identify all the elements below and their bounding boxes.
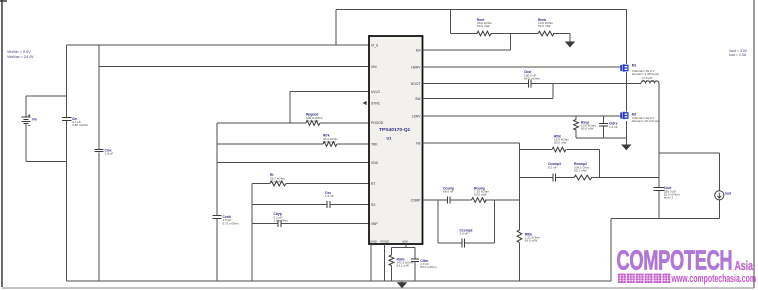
svg-text:VinMin = 9.0V: VinMin = 9.0V [7,50,31,54]
inductor L1 [641,76,659,84]
svg-text:1.0 nF: 1.0 nF [609,125,618,129]
capacitor Cinx [95,45,114,281]
svg-text:8.2 nF: 8.2 nF [548,165,557,169]
svg-text:50.0 mOhm: 50.0 mOhm [420,265,437,269]
svg-text:Asia: Asia [735,259,754,273]
resistor Rcomp2 [574,162,659,180]
svg-text:EN: EN [416,48,421,52]
svg-text:63.0 mW: 63.0 mW [477,24,489,28]
resistor Rsup [574,116,597,138]
wire top rail [336,10,626,46]
svg-text:63.0 mW: 63.0 mW [323,140,335,144]
svg-text:VI_S: VI_S [371,43,379,47]
resistor Rtrk [217,134,369,147]
svg-text:69.3 mOhm: 69.3 mOhm [642,79,659,83]
resistor Rilim [389,244,415,281]
svg-text:www.compotechasia.com: www.compotechasia.com [671,273,756,285]
svg-text:HDRV: HDRV [411,65,421,69]
svg-text:4.68 mOhm: 4.68 mOhm [72,123,89,127]
capacitor Cilim [411,248,437,282]
capacitor Ccomp2 [438,200,494,247]
svg-text:63.0 mW: 63.0 mW [525,239,537,243]
svg-text:1.0 µF: 1.0 µF [105,152,114,156]
svg-text:1.0 nF: 1.0 nF [460,232,469,236]
svg-text:63.0 mW: 63.0 mW [306,119,318,123]
svg-text:TRK: TRK [371,142,378,146]
svg-text:63.1 mW: 63.1 mW [397,264,409,268]
svg-text:63.0 mW: 63.0 mW [581,127,593,131]
svg-text:1.5 nF: 1.5 nF [325,194,334,198]
svg-text:63.0 mW: 63.0 mW [538,24,550,28]
resistor Rfbb [517,230,540,281]
resistor Rcomp [472,186,520,202]
svg-text:Iout: Iout [725,191,732,195]
wire gate-gnd loop [576,137,626,139]
svg-text:ILIM: ILIM [402,239,408,243]
ground (M2 source) [621,145,631,151]
capacitor Cbyp [252,212,369,227]
transistor M2 [621,84,659,145]
wire FB [423,143,520,230]
wire VDD [217,162,369,164]
capacitor Cbst [423,70,642,87]
svg-text:U1: U1 [387,136,393,141]
svg-text:M1: M1 [632,63,637,67]
svg-text:1.0 mOhm: 1.0 mOhm [274,218,289,222]
transistor M1 [621,10,659,84]
ground rail [67,280,612,282]
capacitor Css [252,191,369,208]
svg-text:SW: SW [415,97,421,101]
svg-text:Vin: Vin [32,118,37,122]
svg-text:68.0 nF: 68.0 nF [443,190,454,194]
capacitor Cvdd [213,123,240,281]
resistor Rt [252,173,369,186]
capacitor Cout [654,84,681,219]
svg-text:63.1 mW: 63.1 mW [574,168,586,172]
resistor Rfbt [520,134,600,177]
capacitor Ccomp3 [520,162,575,181]
capacitor Cin [62,45,89,281]
wire UVLO [290,92,369,124]
svg-text:SYNC: SYNC [371,101,381,105]
svg-text:RT: RT [371,182,375,186]
ground (Renb) [565,42,575,48]
svg-text:PGOOD: PGOOD [371,121,384,125]
voltage source Vin [22,96,67,162]
wire VI_S top line [67,44,370,46]
svg-text:64.5 mOhm: 64.5 mOhm [524,76,541,80]
svg-text:VBP: VBP [371,222,378,226]
svg-text:LDRV: LDRV [412,114,422,118]
resistor Rent [451,10,539,36]
capacitor Ccomp [423,186,472,203]
svg-text:VinMax = 24.0V: VinMax = 24.0V [7,55,34,59]
svg-text:63.0 mW: 63.0 mW [474,193,486,197]
node vertical x252 [251,184,253,282]
wire HDRV [423,66,622,68]
svg-text:UVLO: UVLO [371,90,380,94]
svg-text:Iavr= 2: Iavr= 2 [664,195,674,199]
load Iout [659,153,732,218]
svg-text:63.0 mW: 63.0 mW [270,179,282,183]
svg-text:Iout = 2.0A: Iout = 2.0A [729,53,747,57]
svg-text:COMP: COMP [411,198,422,202]
svg-text:50.0 mW: 50.0 mW [554,141,566,145]
svg-text:TPS40170-Q1: TPS40170-Q1 [379,127,411,133]
wire PGND [384,244,386,281]
note VinMin/VinMax [7,50,34,59]
svg-text:PGND: PGND [381,239,389,243]
wire EN [423,34,511,51]
wire SW [423,84,554,99]
capacitor Cldrv [599,116,618,138]
svg-text:6.71 mOhm: 6.71 mOhm [223,221,240,225]
resistor Renb [538,18,570,42]
logo chinese tagline [618,273,756,285]
svg-text:Idsmax= 10.0 Amps: Idsmax= 10.0 Amps [632,119,660,123]
logo COMPOTECH [617,246,754,277]
svg-text:VDD: VDD [371,161,379,165]
ground (main) [397,281,408,288]
SYNC pin arrow [363,101,367,105]
note Vout/Iout [729,49,748,57]
IC U1 TPS40170-Q1 [369,36,423,244]
svg-text:VIN: VIN [371,65,377,69]
wire VIN line [99,66,369,68]
wire LDRV [423,115,622,117]
wire output bottom [611,218,719,281]
svg-text:AGND: AGND [369,239,377,243]
wire AGND [370,244,372,281]
svg-text:BOOT: BOOT [411,82,420,86]
resistor Rpgood [217,113,369,126]
